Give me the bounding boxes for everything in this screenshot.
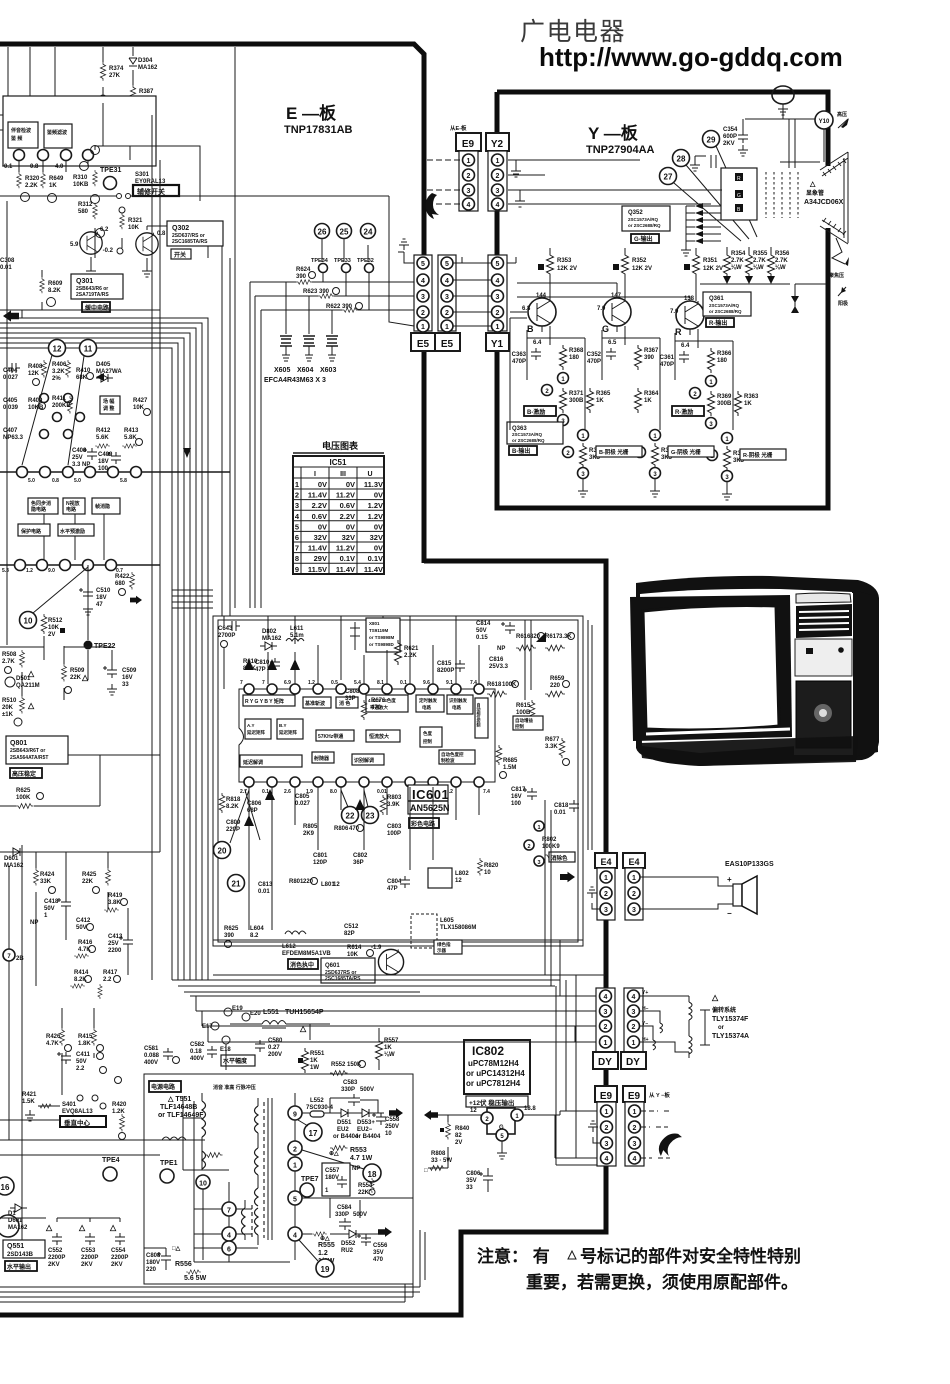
svg-text:R625: R625 xyxy=(16,788,31,794)
svg-text:0.1V: 0.1V xyxy=(368,554,383,563)
svg-text:△: △ xyxy=(45,1223,53,1232)
svg-text:DY: DY xyxy=(598,1057,612,1068)
svg-text:Q302: Q302 xyxy=(172,225,189,232)
svg-text:1: 1 xyxy=(632,875,636,882)
svg-text:R621: R621 xyxy=(404,646,419,652)
svg-text:7.0: 7.0 xyxy=(670,309,679,315)
svg-text:TLF14648B: TLF14648B xyxy=(160,1104,197,1111)
svg-text:18: 18 xyxy=(368,1170,377,1179)
svg-text:延迟解调: 延迟解调 xyxy=(242,759,263,766)
svg-text:8.1: 8.1 xyxy=(377,680,384,686)
svg-text:or TS9898D: or TS9898D xyxy=(369,642,395,647)
svg-text:R353: R353 xyxy=(557,258,572,264)
svg-text:辅修开关: 辅修开关 xyxy=(137,187,165,196)
svg-text:0.6V: 0.6V xyxy=(312,512,327,521)
svg-text:2: 2 xyxy=(527,844,530,850)
svg-text:100K: 100K xyxy=(16,795,31,801)
svg-text:16V: 16V xyxy=(122,675,133,681)
svg-text:G: G xyxy=(602,324,609,334)
svg-text:识别触发: 识别触发 xyxy=(449,697,467,704)
svg-text:24: 24 xyxy=(364,228,373,237)
svg-text:0.8: 0.8 xyxy=(157,231,166,237)
svg-text:调 整: 调 整 xyxy=(103,405,115,412)
svg-text:IC51: IC51 xyxy=(330,458,347,467)
svg-text:TPE7: TPE7 xyxy=(301,1176,319,1183)
svg-text:3: 3 xyxy=(632,1009,636,1016)
svg-text:C816: C816 xyxy=(489,657,504,663)
svg-text:从E-板: 从E-板 xyxy=(450,124,467,132)
svg-text:10: 10 xyxy=(199,1181,207,1188)
svg-text:470P: 470P xyxy=(587,359,601,365)
svg-text:Y+: Y+ xyxy=(642,990,648,996)
svg-text:3: 3 xyxy=(633,1141,637,1148)
svg-text:11.4V: 11.4V xyxy=(308,491,327,500)
svg-text:L604: L604 xyxy=(250,926,264,932)
svg-text:220P: 220P xyxy=(226,827,240,833)
svg-text:R413: R413 xyxy=(124,428,139,434)
svg-text:D802: D802 xyxy=(262,629,277,635)
svg-text:2KV: 2KV xyxy=(48,1262,60,1268)
svg-text:S401: S401 xyxy=(62,1102,77,1108)
svg-text:25V3.3: 25V3.3 xyxy=(489,664,509,670)
svg-text:50V: 50V xyxy=(44,906,55,912)
svg-text:R356: R356 xyxy=(775,251,790,257)
svg-text:+: + xyxy=(727,875,732,884)
svg-text:2SB643/R6T or: 2SB643/R6T or xyxy=(10,748,45,754)
svg-text:D405: D405 xyxy=(96,362,111,368)
svg-text:⅛W: ⅛W xyxy=(775,265,786,271)
svg-text:B-阴极 光栅: B-阴极 光栅 xyxy=(599,448,629,456)
svg-text:5: 5 xyxy=(445,261,449,268)
svg-text:0.01: 0.01 xyxy=(377,789,387,795)
svg-text:TPE32: TPE32 xyxy=(357,258,374,264)
svg-text:R557: R557 xyxy=(384,1038,399,1044)
svg-text:R555: R555 xyxy=(318,1242,335,1249)
svg-text:C361: C361 xyxy=(660,355,675,361)
svg-text:-0.2: -0.2 xyxy=(103,248,114,254)
svg-text:C813: C813 xyxy=(258,882,273,888)
svg-text:MA27WA: MA27WA xyxy=(96,369,122,375)
svg-text:1: 1 xyxy=(496,158,500,165)
svg-text:射随器: 射随器 xyxy=(313,755,330,762)
svg-text:2V: 2V xyxy=(455,1140,462,1146)
svg-text:R387: R387 xyxy=(139,89,154,95)
svg-text:AN5625N: AN5625N xyxy=(410,803,450,813)
svg-text:4: 4 xyxy=(421,278,425,285)
svg-text:⅛W: ⅛W xyxy=(753,265,764,271)
svg-text:B: B xyxy=(527,324,534,334)
svg-text:4: 4 xyxy=(633,1156,637,1163)
svg-text:180V: 180V xyxy=(146,1260,160,1266)
svg-text:鉴频滤波: 鉴频滤波 xyxy=(46,129,67,136)
svg-text:600P: 600P xyxy=(723,134,737,140)
svg-text:缓中电路: 缓中电路 xyxy=(85,304,110,312)
svg-text:33 · 5W: 33 · 5W xyxy=(431,1158,452,1164)
svg-text:Y2: Y2 xyxy=(491,139,504,150)
svg-text:2: 2 xyxy=(633,1125,637,1132)
svg-text:6: 6 xyxy=(295,533,299,542)
svg-text:6.2: 6.2 xyxy=(100,227,109,233)
svg-text:EVQ8AL13: EVQ8AL13 xyxy=(62,1109,93,1115)
svg-text:10: 10 xyxy=(385,1131,392,1137)
svg-text:TLX158086M: TLX158086M xyxy=(440,925,476,931)
svg-text:△: △ xyxy=(711,993,719,1002)
svg-text:6.8: 6.8 xyxy=(522,306,531,312)
svg-text:R676: R676 xyxy=(371,698,386,704)
svg-text:22: 22 xyxy=(346,812,355,821)
svg-text:22K: 22K xyxy=(70,675,82,681)
svg-text:1.2: 1.2 xyxy=(318,1250,328,1257)
svg-text:4: 4 xyxy=(227,1233,231,1240)
svg-text:680: 680 xyxy=(115,581,126,587)
svg-text:1K: 1K xyxy=(644,398,652,404)
svg-text:10: 10 xyxy=(484,870,491,876)
svg-text:or B4404: or B4404 xyxy=(355,1134,381,1140)
svg-text:重要，若需更换，须使用原配部件。: 重要，若需更换，须使用原配部件。 xyxy=(526,1272,798,1292)
svg-text:水平预激励: 水平预激励 xyxy=(59,528,85,535)
svg-text:2.2: 2.2 xyxy=(76,1066,85,1072)
svg-text:26: 26 xyxy=(318,228,327,237)
svg-text:0V: 0V xyxy=(374,522,383,531)
svg-text:0V: 0V xyxy=(374,491,383,500)
svg-text:R Y G Y B Y 矩阵: R Y G Y B Y 矩阵 xyxy=(245,698,284,705)
svg-text:△: △ xyxy=(27,669,35,678)
svg-text:RU2: RU2 xyxy=(341,1248,354,1254)
svg-text:Q361: Q361 xyxy=(709,296,724,302)
svg-text:MA162: MA162 xyxy=(262,636,282,642)
svg-text:R624: R624 xyxy=(296,267,311,273)
svg-text:C643: C643 xyxy=(218,626,233,632)
svg-text:5.8K: 5.8K xyxy=(124,435,137,441)
svg-text:3: 3 xyxy=(604,907,608,914)
svg-text:12: 12 xyxy=(53,345,62,354)
svg-text:NP: NP xyxy=(352,1166,360,1172)
svg-text:0.1: 0.1 xyxy=(400,680,407,686)
svg-text:0.18: 0.18 xyxy=(190,1049,202,1055)
svg-text:580: 580 xyxy=(78,209,89,215)
svg-text:D551: D551 xyxy=(337,1120,352,1126)
svg-text:Q301: Q301 xyxy=(76,278,93,285)
svg-text:C552: C552 xyxy=(48,1248,63,1254)
svg-text:R618: R618 xyxy=(487,682,502,688)
svg-text:10KB: 10KB xyxy=(28,405,44,411)
svg-text:C554: C554 xyxy=(111,1248,126,1254)
svg-text:开关: 开关 xyxy=(174,251,186,259)
svg-text:R352: R352 xyxy=(632,258,647,264)
svg-text:4.7K: 4.7K xyxy=(78,947,91,953)
svg-text:⊕△: ⊕△ xyxy=(329,1150,339,1157)
svg-text:Y10: Y10 xyxy=(819,119,830,125)
svg-text:TLY15374A: TLY15374A xyxy=(712,1033,749,1040)
svg-text:0V: 0V xyxy=(374,544,383,553)
svg-text:E20: E20 xyxy=(250,1011,261,1017)
svg-text:11.2V: 11.2V xyxy=(336,544,355,553)
svg-text:延迟矩阵: 延迟矩阵 xyxy=(246,729,265,736)
svg-text:180: 180 xyxy=(569,355,580,361)
svg-text:0.1V: 0.1V xyxy=(340,554,355,563)
svg-text:R367: R367 xyxy=(644,348,659,354)
svg-text:R415: R415 xyxy=(78,1034,93,1040)
svg-text:1K: 1K xyxy=(310,1058,318,1064)
svg-text:R368: R368 xyxy=(569,348,584,354)
svg-text:R354: R354 xyxy=(731,251,746,257)
svg-text:2: 2 xyxy=(632,891,636,898)
svg-text:R617: R617 xyxy=(545,634,560,640)
svg-text:3.2K: 3.2K xyxy=(52,369,65,375)
svg-text:自动增益: 自动增益 xyxy=(515,717,533,724)
svg-text:330P: 330P xyxy=(341,1087,355,1093)
svg-text:2200P: 2200P xyxy=(48,1255,65,1261)
svg-text:12: 12 xyxy=(470,1108,477,1114)
svg-text:EU2: EU2 xyxy=(337,1127,349,1133)
svg-text:帧消隐: 帧消隐 xyxy=(95,503,110,510)
svg-text:10K: 10K xyxy=(128,225,140,231)
svg-text:R609: R609 xyxy=(48,281,63,287)
svg-text:2SC1573A/RQ: 2SC1573A/RQ xyxy=(709,303,740,308)
svg-text:2.7K: 2.7K xyxy=(753,258,766,264)
svg-text:25V: 25V xyxy=(108,941,119,947)
svg-text:R364: R364 xyxy=(644,391,659,397)
svg-text:C405: C405 xyxy=(3,398,18,404)
svg-text:R312: R312 xyxy=(78,202,93,208)
svg-text:电路: 电路 xyxy=(452,704,461,711)
svg-text:12K 2V: 12K 2V xyxy=(703,266,723,272)
svg-text:绿色指: 绿色指 xyxy=(437,941,451,948)
svg-text:E4: E4 xyxy=(628,857,639,867)
svg-text:18V: 18V xyxy=(96,595,107,601)
svg-text:5: 5 xyxy=(496,261,500,268)
svg-text:R840: R840 xyxy=(455,1126,470,1132)
svg-text:0.15: 0.15 xyxy=(476,635,488,641)
svg-text:△: △ xyxy=(109,1223,117,1232)
svg-text:伴音检波: 伴音检波 xyxy=(10,127,31,134)
svg-text:2%: 2% xyxy=(52,376,61,382)
svg-text:6: 6 xyxy=(227,1247,231,1254)
svg-text:9: 9 xyxy=(293,1112,297,1119)
svg-text:4: 4 xyxy=(467,202,471,209)
svg-text:显象管: 显象管 xyxy=(806,189,824,197)
svg-text:1.5M: 1.5M xyxy=(503,765,516,771)
svg-text:C512: C512 xyxy=(344,924,359,930)
svg-text:10K: 10K xyxy=(48,625,60,631)
svg-text:±1K: ±1K xyxy=(2,712,14,718)
svg-text:E4: E4 xyxy=(600,857,611,867)
svg-text:32V: 32V xyxy=(314,533,327,542)
svg-text:R552: R552 xyxy=(331,1062,346,1068)
svg-text:B-激励: B-激励 xyxy=(527,408,545,416)
svg-text:300B: 300B xyxy=(569,398,584,404)
svg-text:32V: 32V xyxy=(342,533,355,542)
svg-text:水平幅度: 水平幅度 xyxy=(223,1057,248,1065)
svg-text:R369: R369 xyxy=(717,394,732,400)
svg-text:11.2V: 11.2V xyxy=(336,491,355,500)
svg-text:R419: R419 xyxy=(108,893,123,899)
svg-text:Y —板: Y —板 xyxy=(588,123,639,143)
svg-text:23: 23 xyxy=(366,812,375,821)
svg-text:21: 21 xyxy=(232,880,241,889)
svg-text:16: 16 xyxy=(1,1183,10,1192)
svg-text:2: 2 xyxy=(293,1147,297,1154)
svg-text:L611: L611 xyxy=(290,626,304,632)
svg-text:22K: 22K xyxy=(358,1190,370,1196)
svg-text:2SC1685TA/RS: 2SC1685TA/RS xyxy=(325,976,361,982)
svg-text:2: 2 xyxy=(496,173,500,180)
svg-text:C308: C308 xyxy=(0,258,15,264)
svg-text:R616: R616 xyxy=(516,634,531,640)
svg-text:3: 3 xyxy=(295,501,299,510)
svg-text:R422: R422 xyxy=(115,574,130,580)
svg-text:C553: C553 xyxy=(81,1248,96,1254)
svg-text:C409: C409 xyxy=(98,452,113,458)
svg-text:R371: R371 xyxy=(569,391,584,397)
svg-text:R355: R355 xyxy=(753,251,768,257)
svg-text:8.2K: 8.2K xyxy=(226,804,239,810)
svg-text:Q551: Q551 xyxy=(7,1243,24,1250)
svg-text:470: 470 xyxy=(371,705,382,711)
svg-text:8: 8 xyxy=(295,554,299,563)
svg-text:DY: DY xyxy=(626,1057,640,1068)
svg-text:R-激励: R-激励 xyxy=(675,408,693,416)
svg-text:R510: R510 xyxy=(2,698,17,704)
svg-text:400V: 400V xyxy=(144,1060,158,1066)
svg-text:识别解调: 识别解调 xyxy=(354,757,374,764)
svg-text:4: 4 xyxy=(605,1156,609,1163)
svg-text:N视放: N视放 xyxy=(66,500,81,507)
svg-text:IC802: IC802 xyxy=(472,1044,504,1058)
svg-text:3: 3 xyxy=(605,1141,609,1148)
svg-text:0.27: 0.27 xyxy=(268,1045,280,1051)
svg-text:8200P: 8200P xyxy=(437,668,454,674)
svg-text:330P: 330P xyxy=(335,1212,349,1218)
svg-text:5.9: 5.9 xyxy=(70,242,79,248)
svg-text:R803: R803 xyxy=(387,795,402,801)
svg-text:2: 2 xyxy=(467,173,471,180)
svg-text:保护电路: 保护电路 xyxy=(20,528,42,535)
svg-text:20K: 20K xyxy=(2,705,14,711)
svg-text:自动色度控: 自动色度控 xyxy=(441,751,464,758)
svg-text:⊕△: ⊕△ xyxy=(320,1235,330,1242)
svg-text:Q352: Q352 xyxy=(628,210,643,216)
svg-text:100P: 100P xyxy=(387,831,401,837)
svg-text:R808: R808 xyxy=(431,1151,446,1157)
svg-text:R622 390: R622 390 xyxy=(326,304,353,310)
svg-text:1K: 1K xyxy=(384,1045,392,1051)
svg-text:1K: 1K xyxy=(596,398,604,404)
svg-text:390: 390 xyxy=(644,355,655,361)
svg-text:0.088: 0.088 xyxy=(144,1053,160,1059)
svg-text:7: 7 xyxy=(240,680,243,686)
svg-text:2KV: 2KV xyxy=(723,141,735,147)
svg-text:R421: R421 xyxy=(22,1092,37,1098)
svg-text:470P: 470P xyxy=(660,362,674,368)
svg-text:2.6: 2.6 xyxy=(284,789,291,795)
svg-text:180V: 180V xyxy=(325,1175,339,1181)
svg-text:82P: 82P xyxy=(344,931,355,937)
svg-text:12K: 12K xyxy=(28,371,40,377)
svg-text:G-阴极 光栅: G-阴极 光栅 xyxy=(671,448,701,456)
svg-text:自动相位控制: 自动相位控制 xyxy=(477,702,482,728)
svg-text:色度: 色度 xyxy=(423,730,432,737)
svg-text:R556: R556 xyxy=(175,1261,192,1268)
svg-text:R310: R310 xyxy=(73,175,88,181)
svg-text:L552: L552 xyxy=(310,1098,324,1104)
svg-text:5.4: 5.4 xyxy=(354,680,361,686)
svg-text:1: 1 xyxy=(632,1040,636,1047)
svg-text:5.6K: 5.6K xyxy=(96,435,109,441)
svg-text:R351: R351 xyxy=(703,258,718,264)
svg-text:3: 3 xyxy=(445,294,449,301)
svg-text:2.2K: 2.2K xyxy=(404,653,417,659)
svg-text:500V: 500V xyxy=(360,1087,374,1093)
svg-text:R425: R425 xyxy=(82,872,97,878)
svg-text:22K: 22K xyxy=(82,879,94,885)
svg-text:2.2K: 2.2K xyxy=(25,183,38,189)
svg-text:X801: X801 xyxy=(369,621,380,626)
svg-text:9.6: 9.6 xyxy=(423,680,430,686)
svg-text:2V: 2V xyxy=(48,632,55,638)
svg-text:△: △ xyxy=(299,1024,307,1033)
svg-text:2SA719TA/RS: 2SA719TA/RS xyxy=(76,292,109,298)
svg-text:U: U xyxy=(367,471,372,478)
svg-text:C412: C412 xyxy=(76,918,91,924)
svg-text:18.8: 18.8 xyxy=(524,1106,536,1112)
svg-text:3: 3 xyxy=(467,188,471,195)
svg-text:TPE4: TPE4 xyxy=(102,1157,120,1164)
svg-text:号标记的部件对安全特性特别: 号标记的部件对安全特性特别 xyxy=(580,1246,801,1266)
svg-text:10: 10 xyxy=(24,617,33,626)
svg-text:R649: R649 xyxy=(49,176,64,182)
svg-text:E9: E9 xyxy=(628,1091,641,1102)
svg-text:C510: C510 xyxy=(96,588,111,594)
svg-text:电压图表: 电压图表 xyxy=(322,440,359,451)
svg-text:R551: R551 xyxy=(310,1051,325,1057)
svg-text:R-阴极 光栅: R-阴极 光栅 xyxy=(743,451,773,459)
svg-text:4: 4 xyxy=(496,202,500,209)
svg-text:7: 7 xyxy=(227,1208,231,1215)
svg-text:or TS9898M: or TS9898M xyxy=(369,635,395,640)
svg-text:35V: 35V xyxy=(466,1178,477,1184)
svg-text:C352: C352 xyxy=(587,352,602,358)
svg-text:C583: C583 xyxy=(343,1080,358,1086)
svg-text:33K: 33K xyxy=(40,879,52,885)
svg-text:or 2SC2688/RQ: or 2SC2688/RQ xyxy=(709,309,742,314)
svg-text:色同步消: 色同步消 xyxy=(31,500,51,507)
svg-text:消音 准高 行脉冲压: 消音 准高 行脉冲压 xyxy=(213,1084,256,1091)
svg-text:2: 2 xyxy=(421,310,425,317)
svg-text:注意： 有: 注意： 有 xyxy=(477,1246,550,1266)
svg-text:4.7K: 4.7K xyxy=(46,1041,59,1047)
svg-text:1: 1 xyxy=(445,324,449,331)
svg-text:120P: 120P xyxy=(313,860,327,866)
svg-text:C354: C354 xyxy=(723,127,738,133)
svg-text:400V: 400V xyxy=(190,1056,204,1062)
svg-text:11.4V: 11.4V xyxy=(364,565,383,574)
svg-text:C509: C509 xyxy=(122,668,137,674)
svg-text:EFDEM8M5A1VB: EFDEM8M5A1VB xyxy=(282,951,331,957)
svg-text:6.9: 6.9 xyxy=(284,680,291,686)
svg-text:基准斩波: 基准斩波 xyxy=(304,700,325,707)
svg-text:III: III xyxy=(340,471,346,478)
svg-text:or uPC14312H4: or uPC14312H4 xyxy=(466,1069,525,1078)
svg-text:R366: R366 xyxy=(717,351,732,357)
svg-text:R414: R414 xyxy=(74,970,89,976)
svg-text:恒流放大: 恒流放大 xyxy=(369,733,389,740)
svg-text:Q601: Q601 xyxy=(325,963,340,969)
svg-text:R426: R426 xyxy=(46,1034,61,1040)
svg-text:聚焦压: 聚焦压 xyxy=(828,272,844,279)
svg-text:0.01: 0.01 xyxy=(0,265,12,271)
svg-text:12K 2V: 12K 2V xyxy=(557,266,577,272)
